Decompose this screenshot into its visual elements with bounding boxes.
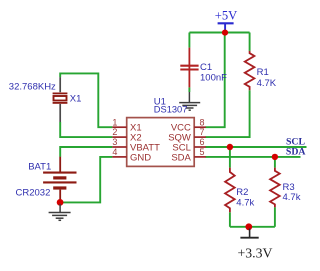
capacitor C1 bbox=[180, 48, 227, 88]
svg-text:+3.3V: +3.3V bbox=[238, 246, 273, 261]
wire C1 bottom stub bbox=[188, 87, 190, 92]
wire SCL net bbox=[206, 146, 307, 148]
junction +5V node bbox=[222, 29, 228, 35]
resistor R3 bbox=[270, 168, 301, 208]
svg-text:8: 8 bbox=[200, 117, 205, 127]
resistor R2 bbox=[225, 168, 254, 213]
wire SDA to R3 top bbox=[274, 157, 276, 168]
resistor R1 bbox=[245, 51, 277, 90]
svg-text:3: 3 bbox=[112, 137, 117, 147]
wire rail to R1 top bbox=[249, 33, 251, 51]
wire battery bottom to pin 4 bbox=[60, 157, 112, 203]
wire R3 bottom bbox=[274, 207, 276, 227]
pin 5 stub bbox=[194, 156, 206, 158]
svg-text:CR2032: CR2032 bbox=[16, 188, 51, 199]
pin 1 stub bbox=[112, 126, 126, 128]
svg-text:1: 1 bbox=[112, 117, 117, 127]
ground at C1 bbox=[179, 92, 200, 110]
svg-text:32.768KHz: 32.768KHz bbox=[9, 82, 56, 93]
svg-text:X1: X1 bbox=[70, 93, 82, 104]
pin 3 stub bbox=[112, 146, 126, 148]
svg-text:DS1307: DS1307 bbox=[154, 104, 188, 114]
wire crystal top to pin 1 bbox=[60, 73, 112, 127]
svg-text:BAT1: BAT1 bbox=[28, 162, 51, 173]
svg-text:4.7K: 4.7K bbox=[257, 78, 277, 89]
svg-text:4.7k: 4.7k bbox=[283, 192, 301, 203]
svg-text:2: 2 bbox=[112, 127, 117, 137]
svg-text:100nF: 100nF bbox=[200, 72, 227, 83]
battery BAT1 bbox=[16, 157, 77, 200]
+3.3V power symbol bbox=[238, 229, 273, 261]
wire SDA net bbox=[206, 156, 301, 158]
junction battery/gnd node bbox=[57, 199, 64, 206]
svg-text:SDA: SDA bbox=[286, 146, 306, 157]
svg-text:7: 7 bbox=[200, 127, 205, 137]
pin 4 stub bbox=[112, 156, 126, 158]
svg-text:5: 5 bbox=[200, 147, 205, 157]
pin 6 stub bbox=[194, 146, 206, 148]
crystal X1 bbox=[9, 77, 82, 122]
svg-text:6: 6 bbox=[200, 137, 205, 147]
junction +3.3V node bbox=[245, 223, 252, 230]
wire rail to C1 top bbox=[188, 33, 190, 48]
wire pin 8 VCC to +5V junction bbox=[206, 33, 225, 128]
wire pin 3 to battery top bbox=[60, 147, 112, 157]
wire R2 bottom bbox=[229, 212, 231, 227]
wire +5V rail bbox=[189, 32, 249, 34]
wire R1 bottom to pin 7 SQW bbox=[206, 90, 250, 137]
IC U1 DS1307 bbox=[112, 97, 205, 167]
pin 7 stub bbox=[194, 136, 206, 138]
pin 2 stub bbox=[112, 136, 126, 138]
svg-text:GND: GND bbox=[130, 152, 151, 163]
+5V power symbol bbox=[215, 9, 238, 31]
junction SDA node bbox=[272, 154, 278, 160]
wire bottom rail to +3.3V bbox=[230, 226, 275, 228]
svg-text:4.7k: 4.7k bbox=[236, 197, 254, 208]
svg-text:R1: R1 bbox=[257, 67, 269, 78]
wire SCL to R2 top bbox=[229, 147, 231, 168]
svg-text:4: 4 bbox=[112, 147, 117, 157]
svg-text:+5V: +5V bbox=[215, 9, 238, 23]
junction SCL node bbox=[227, 144, 233, 150]
svg-text:R2: R2 bbox=[236, 187, 248, 198]
ground at battery bbox=[49, 204, 71, 220]
svg-text:SDA: SDA bbox=[171, 152, 191, 163]
wire crystal bottom to pin 2 bbox=[60, 122, 112, 137]
pin 8 stub bbox=[194, 126, 206, 128]
